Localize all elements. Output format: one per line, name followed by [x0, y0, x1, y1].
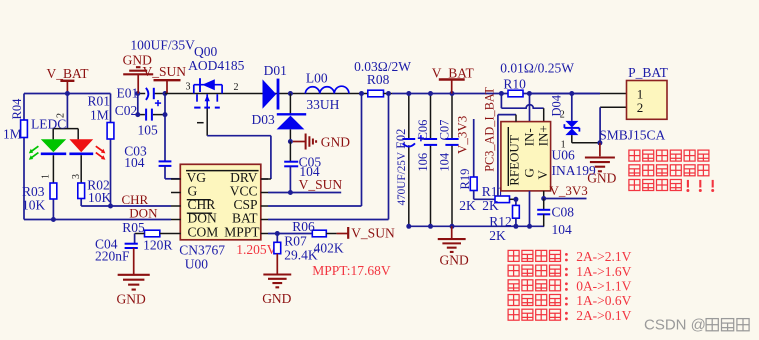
svg-text:V_BAT: V_BAT — [432, 65, 475, 80]
svg-text:V_3V3: V_3V3 — [550, 183, 588, 198]
svg-text:V_SUN: V_SUN — [351, 226, 395, 241]
svg-text:104: 104 — [124, 155, 145, 170]
svg-text:2: 2 — [637, 100, 644, 115]
svg-text:470UF/25V: 470UF/25V — [396, 152, 408, 205]
svg-text:1M: 1M — [3, 127, 22, 142]
svg-text:D01: D01 — [264, 63, 287, 78]
svg-text:0.01Ω/0.25W: 0.01Ω/0.25W — [500, 61, 574, 76]
svg-text:GND: GND — [587, 170, 616, 185]
svg-text:MPPT:17.68V: MPPT:17.68V — [312, 263, 391, 278]
svg-text:220nF: 220nF — [95, 249, 130, 264]
svg-text:V_SUN: V_SUN — [299, 177, 343, 192]
svg-text:2: 2 — [56, 113, 67, 118]
svg-text:104: 104 — [552, 222, 573, 237]
svg-text:GND: GND — [440, 253, 469, 268]
svg-text:105: 105 — [138, 123, 159, 138]
svg-text:D03: D03 — [252, 112, 275, 127]
svg-text:V_BAT: V_BAT — [47, 66, 90, 81]
svg-text:E02: E02 — [394, 129, 408, 149]
svg-text:1: 1 — [40, 174, 51, 179]
svg-text:10K: 10K — [22, 198, 46, 213]
svg-text:R08: R08 — [367, 72, 390, 87]
svg-text:RFEOUT: RFEOUT — [507, 135, 522, 186]
svg-text:104: 104 — [437, 152, 451, 172]
svg-text:0A->1.1V: 0A->1.1V — [576, 279, 631, 294]
svg-text:R07: R07 — [284, 234, 307, 249]
svg-text:10K: 10K — [88, 190, 112, 205]
svg-text:R12: R12 — [489, 214, 512, 229]
svg-text:E01: E01 — [117, 85, 139, 100]
svg-text:V_3V3: V_3V3 — [454, 116, 469, 154]
svg-text:L00: L00 — [306, 71, 328, 86]
svg-text:2K: 2K — [489, 228, 506, 243]
svg-text:BAT: BAT — [232, 211, 258, 226]
svg-text:MPPT: MPPT — [224, 225, 260, 240]
svg-text:R19: R19 — [458, 169, 472, 190]
svg-text:C06: C06 — [416, 120, 430, 141]
svg-text:402K: 402K — [314, 241, 344, 256]
svg-text:V_SUN: V_SUN — [143, 64, 187, 79]
svg-text:AOD4185: AOD4185 — [188, 58, 244, 73]
svg-text:1A->0.6V: 1A->0.6V — [576, 293, 631, 308]
svg-text:GND: GND — [117, 292, 146, 307]
svg-text:1: 1 — [561, 139, 566, 150]
svg-text:3: 3 — [71, 174, 82, 179]
svg-text:GND: GND — [321, 135, 350, 150]
svg-text:R05: R05 — [122, 220, 145, 235]
svg-text:1.205V: 1.205V — [236, 242, 276, 257]
svg-text:C08: C08 — [552, 205, 575, 220]
svg-text:R01: R01 — [88, 94, 111, 109]
svg-text:R06: R06 — [292, 219, 315, 234]
svg-text:R10: R10 — [503, 77, 526, 92]
svg-text:U00: U00 — [185, 256, 208, 271]
svg-text:100UF/35V: 100UF/35V — [130, 38, 195, 53]
svg-text:2: 2 — [234, 82, 239, 93]
svg-text:2A->2.1V: 2A->2.1V — [576, 249, 631, 264]
svg-text:1A->1.6V: 1A->1.6V — [576, 264, 631, 279]
svg-text:SMBJ15CA: SMBJ15CA — [599, 128, 665, 143]
svg-text:PC3_AD_I_BAT: PC3_AD_I_BAT — [483, 87, 497, 172]
svg-text:C02: C02 — [115, 103, 138, 118]
svg-text:2K: 2K — [482, 198, 499, 213]
svg-text:1M: 1M — [90, 108, 109, 123]
svg-text:29.4K: 29.4K — [284, 248, 318, 263]
svg-text:120R: 120R — [143, 237, 172, 252]
svg-text:2A->0.1V: 2A->0.1V — [576, 308, 631, 323]
svg-text:CSDN @: CSDN @ — [644, 317, 706, 334]
svg-text:Q00: Q00 — [194, 44, 217, 59]
svg-text:P_BAT: P_BAT — [628, 65, 669, 80]
svg-text:IN+: IN+ — [535, 125, 550, 146]
svg-text:106: 106 — [416, 153, 430, 172]
svg-text:3: 3 — [186, 82, 191, 93]
svg-text:GND: GND — [262, 291, 291, 306]
svg-text:COM: COM — [188, 225, 219, 240]
svg-text:2K: 2K — [459, 198, 476, 213]
svg-text:C07: C07 — [437, 120, 451, 141]
svg-text:33UH: 33UH — [306, 97, 339, 112]
svg-text:2: 2 — [560, 109, 565, 120]
svg-text:DON: DON — [129, 206, 158, 221]
svg-text:R04: R04 — [10, 98, 24, 120]
svg-text:V: V — [535, 170, 550, 180]
